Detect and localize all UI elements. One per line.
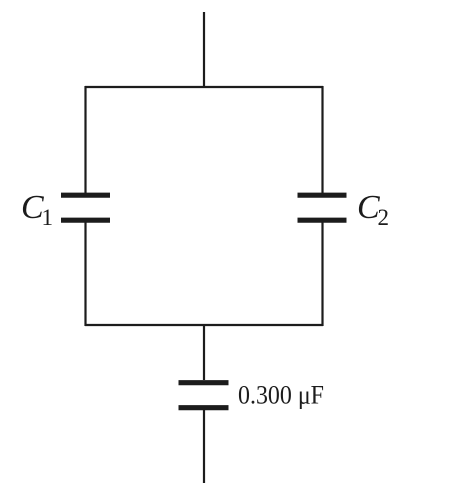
svg-text:2: 2 <box>378 205 390 230</box>
wire right branch upper <box>321 86 323 193</box>
label C1 <box>21 189 53 230</box>
wire middle upper <box>203 325 205 380</box>
node top junction <box>85 86 323 88</box>
node bottom junction <box>85 324 323 326</box>
capacitor C1 <box>61 195 110 220</box>
wire top lead <box>203 12 205 87</box>
capacitor C3 0.300 uF <box>179 383 229 408</box>
wire left branch upper <box>84 86 86 193</box>
svg-text:0.300 μF: 0.300 μF <box>238 380 324 410</box>
value label 0.300 uF <box>238 380 324 410</box>
wire bottom lead <box>203 410 205 483</box>
label C2 <box>357 189 389 230</box>
svg-text:1: 1 <box>42 205 54 230</box>
capacitor C2 <box>298 195 347 220</box>
wire left branch lower <box>84 223 86 327</box>
wire right branch lower <box>321 223 323 327</box>
